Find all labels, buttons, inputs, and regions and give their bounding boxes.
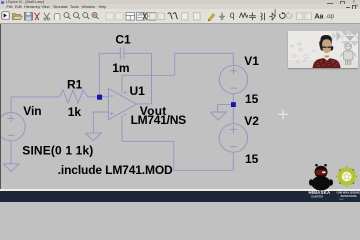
svg-text:SINE(0 1 1k): SINE(0 1 1k) — [22, 143, 93, 157]
window title bar — [0, 0, 360, 5]
svg-text:U1: U1 — [130, 84, 146, 98]
wire Vin top vertical — [10, 97, 12, 113]
ground Vin — [3, 164, 19, 172]
svg-text:▪▪▪▪▪: ▪▪▪▪▪ — [339, 198, 344, 201]
op-amp U1 — [108, 89, 136, 120]
wire V1 bottom to V2 top — [232, 94, 234, 124]
node junction between V1 and V2 — [231, 103, 235, 107]
wire C1 left lead — [99, 52, 120, 54]
svg-text:15: 15 — [245, 152, 259, 166]
wire V2 bottom lead — [232, 152, 234, 170]
svg-text:SEMARANG: SEMARANG — [341, 194, 357, 198]
voltage source Vin — [0, 113, 25, 141]
voltage source V1 — [219, 65, 247, 93]
wire mid node to ground stub — [218, 105, 234, 112]
svg-text:C1: C1 — [115, 33, 131, 47]
webcam overlay — [288, 31, 358, 68]
wire feedback down to output — [151, 53, 153, 104]
svg-text:LM741/NS: LM741/NS — [131, 113, 187, 127]
node junction at R1/C1/op-amp inverting input — [97, 95, 101, 99]
wire op-amp + input to ground — [93, 112, 108, 133]
svg-text:.include LM741.MOD: .include LM741.MOD — [58, 163, 173, 177]
mouse crosshair cursor — [278, 110, 288, 120]
svg-text:1k: 1k — [68, 105, 82, 119]
white separator above bottom bar — [0, 189, 360, 191]
menu bar — [0, 4, 360, 9]
svg-text:V1: V1 — [244, 54, 259, 68]
svg-text:V2: V2 — [244, 114, 259, 128]
voltage source V2 — [219, 124, 247, 152]
ground noninverting input — [85, 133, 101, 140]
wire V- rail to V2 bottom — [174, 169, 234, 171]
capacitor C1 — [120, 47, 124, 59]
svg-text:R1: R1 — [67, 77, 83, 91]
svg-text:SAINTEK: SAINTEK — [311, 195, 323, 199]
wire V- rail horizontal — [122, 140, 174, 142]
wire C1 right lead — [124, 52, 152, 54]
wire R1 to node — [88, 96, 99, 98]
toolbar — [0, 9, 360, 24]
left dark edge — [0, 24, 1, 189]
svg-text:15: 15 — [245, 92, 259, 106]
wire Vin to R1 — [11, 96, 60, 98]
wire op-amp V+ pin up — [121, 75, 123, 93]
wire V+ rail to V1 — [175, 52, 234, 54]
mascot + university logos bottom right — [305, 160, 360, 202]
wire node up to C1 — [98, 53, 100, 97]
wire V1 top lead — [232, 53, 234, 65]
wire V+ rail up — [174, 53, 176, 75]
bottom navy bar — [0, 191, 360, 202]
wire node to op-amp inverting input — [99, 96, 109, 98]
svg-text:Vin: Vin — [23, 104, 41, 118]
wire Vin bottom to ground — [10, 141, 12, 164]
wire V+ rail horizontal — [122, 74, 175, 76]
ground mid supply — [210, 112, 226, 120]
wire V- rail down — [173, 141, 175, 170]
wire op-amp V- pin down — [121, 115, 123, 141]
wire op-amp output — [136, 103, 152, 105]
resistor R1 — [60, 90, 89, 103]
svg-text:1m: 1m — [112, 61, 129, 75]
